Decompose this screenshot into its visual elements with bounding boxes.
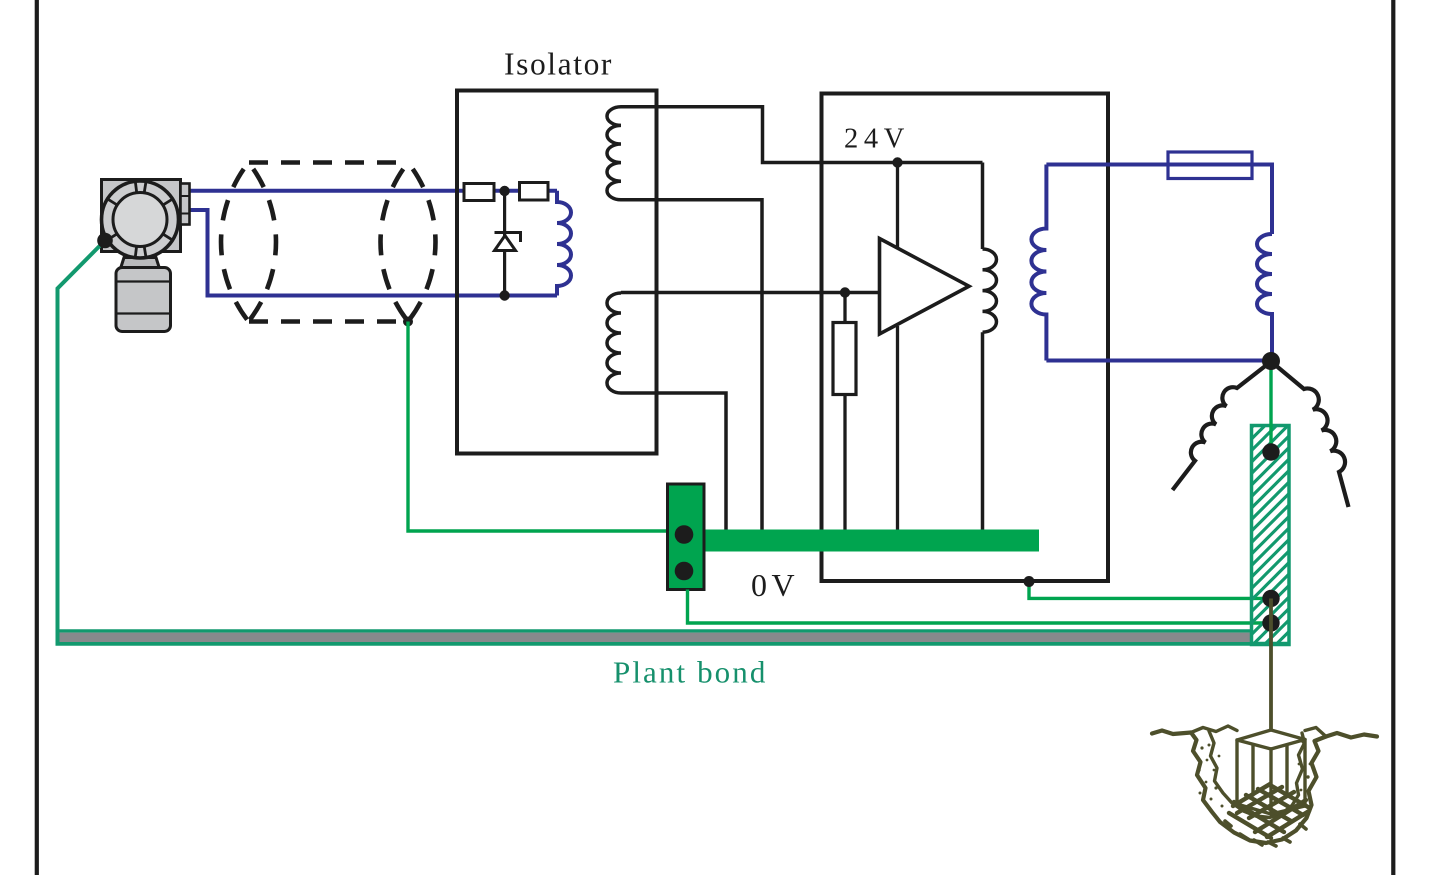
cube bottom edges (1237, 804, 1305, 814)
isolator enclosure box (457, 91, 657, 454)
node: junction dot on amplifier box bottom edge (1024, 576, 1035, 587)
transmitter head inner circle (113, 193, 167, 247)
wire: green lead from earth node into electrode (1269, 361, 1272, 452)
electrode connection dot 2 (1262, 590, 1279, 607)
inductor: isolator blue input coil (557, 191, 571, 296)
inductor: output transformer secondary coil (blue left) (1031, 165, 1046, 361)
inductor: isolator transformer coil T1b (bottom) (607, 293, 621, 393)
inductor: line choke coil (blue right) (1257, 234, 1272, 361)
plant bond bar gray body (60, 633, 1252, 642)
wire: T1a top lead to 24V rail (621, 107, 983, 163)
zener diode D1 vertical wire (503, 191, 506, 296)
cable screen (dashed cylinder) top line (249, 160, 408, 165)
mesh frayed edge ticks (1225, 821, 1306, 846)
curly pigtail wire right of earth node (1271, 362, 1349, 508)
node: 24V rail junction dot (892, 157, 902, 167)
svg-text:0V: 0V (751, 567, 799, 603)
wire: resistor R1 leads (843, 293, 846, 534)
electrode connection dot 3 (1262, 614, 1279, 631)
wire: op-amp +V supply lead (896, 163, 899, 249)
earth terminal block (668, 484, 705, 590)
stipple dots in pit rim (1197, 741, 1311, 812)
resistor R1 (833, 323, 856, 395)
buried mesh mat (1229, 784, 1309, 838)
zener diode D1 triangle (495, 236, 516, 251)
earth pit sketch (1152, 726, 1377, 843)
wire: T1b bottom lead down to 0V bar (621, 393, 726, 533)
cube vertical edges (1237, 740, 1305, 814)
pit inner rim (1209, 731, 1305, 818)
amplifier / power supply enclosure box (822, 94, 1109, 582)
wire: blue loop bottom (1046, 359, 1271, 363)
node: amplifier input junction dot (840, 287, 850, 297)
wire: green from cable screen to earth terminal block (408, 322, 667, 532)
svg-text:Plant bond: Plant bond (613, 655, 767, 690)
svg-text:24V: 24V (844, 124, 910, 155)
wire: T1a bottom lead down to 0V bar (621, 200, 762, 533)
electrode connection dot 1 (1262, 443, 1279, 460)
node A junction dot (top of zener) (499, 186, 509, 196)
terminal block dot 1 (675, 525, 694, 544)
node B junction dot (bottom of zener) (499, 290, 509, 300)
curly pigtail wire left of earth node (1173, 362, 1272, 491)
pit outer rim (1191, 733, 1326, 844)
wire: green earth wire from transmitter down left side (58, 241, 1290, 644)
wire: output coil top lead from 24V rail (981, 163, 985, 250)
wire: blue signal - from transmitter to isolator (190, 210, 558, 296)
wire: green from terminal block to earth electrode (688, 590, 1272, 624)
wire: output coil bottom lead down to 0V bar (981, 332, 985, 533)
zener diode D1 cathode bar with hook (495, 233, 521, 243)
op-amp U1 triangle (880, 239, 970, 335)
figure border right (1391, 0, 1395, 875)
transmitter bezel spokes (107, 181, 172, 257)
ground line right (1326, 733, 1377, 738)
node: main earth junction dot (1262, 352, 1280, 370)
node: screen drain junction dot (403, 317, 413, 327)
wire: blue loop top with fuse (1046, 165, 1272, 235)
0V green busbar (704, 530, 1040, 552)
wire: green from amplifier box bottom to earth electrode (1029, 582, 1271, 599)
transmitter body housing (102, 180, 181, 252)
buried earth cube frame top face (1237, 730, 1305, 749)
ground line left (1152, 731, 1191, 735)
wire: olive earth lead down to buried electrode (1269, 599, 1273, 731)
wire: blue signal + from transmitter to isolator (190, 189, 558, 193)
node: transmitter earth terminal dot (97, 233, 113, 249)
pit opening back rim (1191, 726, 1326, 737)
inductor: output transformer primary coil (983, 249, 997, 332)
cable screen left end ellipse (dashed vesica) (221, 163, 248, 322)
terminal block dot 2 (675, 562, 694, 581)
svg-text:Isolator: Isolator (504, 47, 613, 82)
figure border left (35, 0, 39, 875)
plant bond bar top green edge (60, 629, 1252, 632)
wire: T1b top lead to amplifier input (621, 291, 880, 295)
cable screen bottom line (249, 319, 408, 324)
earth electrode hatched rod (1252, 426, 1290, 645)
fuse F3 on blue output loop (1168, 152, 1252, 179)
cable screen right end ellipse (dashed vesica) (381, 163, 408, 322)
transmitter neck (121, 258, 160, 269)
wire: op-amp -V supply lead down to 0V bar (896, 326, 899, 533)
transmitter terminal flange (181, 184, 190, 225)
inductor: isolator transformer coil T1a (top) (607, 107, 621, 200)
transmitter head outer circle (102, 181, 179, 258)
fuse F2 in isolator (520, 183, 549, 201)
fuse F1 in isolator (464, 184, 494, 201)
transmitter lower body (process connection) (116, 268, 171, 332)
